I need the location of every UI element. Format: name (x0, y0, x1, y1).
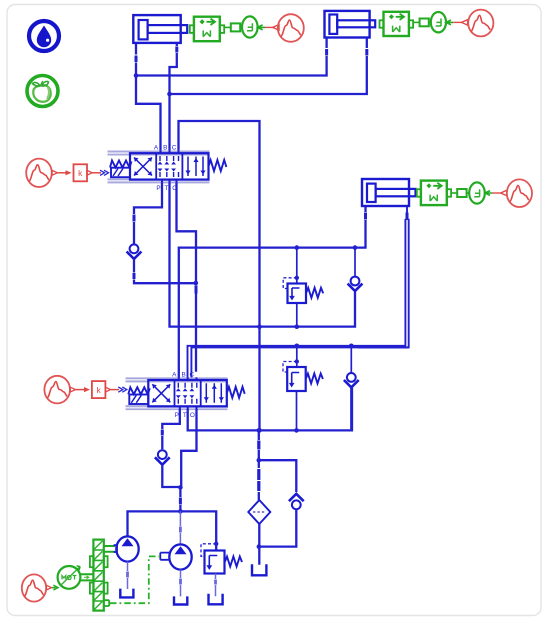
signal source S2 (44, 376, 75, 404)
port stub cyl1 left (135, 56, 138, 63)
filter FL1 (248, 500, 270, 524)
shaft dash-dot link to pump 2 (110, 556, 160, 603)
link L2 (413, 19, 429, 27)
port stubs bottom (162, 180, 177, 182)
signal source S4 (453, 10, 493, 37)
tank T3 (RV3) (209, 594, 223, 605)
gravity (apple) icon (27, 76, 58, 107)
svg-text:T: T (183, 412, 187, 419)
node B2/CV4 (349, 344, 354, 349)
cell 2 closed centre marks (160, 156, 179, 177)
node cyl1-left / line to cyl2 (134, 73, 139, 78)
node cyl1-right / line to cyl2 (167, 92, 172, 97)
node return/filter (257, 428, 262, 433)
mass M3 (417, 181, 451, 206)
svg-text:T: T (165, 185, 169, 192)
wire CV1 to node (196,283) (134, 259, 196, 283)
pump1 shaft tab (114, 545, 117, 552)
port stubs top (161, 151, 179, 153)
wire cyl1 right port down (170, 44, 177, 151)
fluid properties icon (29, 21, 59, 51)
wire pump1 to tank (127, 562, 129, 589)
cell 1 crossed arrows (134, 158, 152, 176)
node C-line / T-return (257, 324, 262, 329)
relief valve RV1 (283, 248, 323, 327)
wire valve1 P to check valve CV1 (134, 182, 162, 243)
wire pump2 riser (179, 511, 181, 544)
tank T1 (pump1) (120, 589, 133, 598)
check valve CV5 (points up) (259, 494, 304, 547)
svg-text:k: k (78, 168, 83, 178)
signal source S1 (26, 159, 57, 187)
relief valve RV2 (283, 346, 323, 431)
wire filter to tank (258, 524, 260, 565)
node return/C-line already drawn; node return/RV2 (294, 428, 299, 433)
force source F1 (242, 16, 265, 37)
svg-text:O: O (190, 412, 195, 419)
wire valve1 T down and across (return header) (170, 182, 356, 326)
node P/O junction (194, 281, 199, 286)
wire valve1 O down-right-down to valve2 C (177, 182, 197, 372)
wire supply riser (179, 487, 181, 511)
left return spring (110, 161, 132, 168)
svg-text:C: C (189, 371, 194, 378)
svg-text:B: B (181, 371, 185, 378)
proportional solenoid box (111, 168, 130, 178)
valve body (130, 153, 209, 179)
cell 3 straight arrows (188, 157, 203, 177)
signal source S6 (22, 574, 52, 601)
relief valve RV3 (201, 544, 242, 596)
node B2/RV2 (295, 344, 300, 349)
wire valve2 T to return header (188, 388, 352, 431)
check valve CV2 (348, 248, 363, 291)
wire y94 to cylinder 2 right port (170, 38, 367, 94)
gain k2 (76, 381, 127, 398)
node supply split (178, 485, 183, 490)
pump P1 (116, 536, 138, 561)
svg-text:B: B (163, 145, 167, 152)
wire valve2 P to check valve CV3 (162, 409, 180, 449)
node T-header/RV1 outlet (295, 324, 300, 329)
wire work line A2: valve2 A up, across to cylinder C3 left (179, 206, 366, 379)
check valve CV4 (344, 346, 359, 431)
node A2/CV2 (353, 245, 358, 250)
link L1 (224, 23, 242, 31)
node A2/RV1 (295, 245, 300, 250)
wire valve1 port C up-right-down (to return) (179, 121, 260, 430)
force source F2 (429, 12, 453, 32)
signal source S5 (492, 179, 532, 207)
selection band top (108, 151, 210, 156)
svg-text:C: C (172, 145, 177, 152)
selection band bottom (108, 179, 210, 184)
pump2 shaft tab (160, 553, 169, 560)
wire filter inlet (258, 460, 260, 500)
mass M2 (380, 12, 414, 36)
node filter outlet / CV5 (257, 544, 262, 549)
pump P2 (169, 544, 191, 569)
cylinder C1 (hydraulic jack) (133, 15, 187, 43)
force source F3 (469, 182, 492, 203)
wire supply manifold (128, 511, 217, 550)
node RV3 pilot tap (214, 542, 218, 546)
wire valve2 O down to supply node (181, 409, 196, 487)
mass M1 (190, 17, 224, 42)
svg-text:A: A (172, 371, 177, 378)
node C-line / tank return (257, 428, 262, 433)
wire CV5 branch (259, 460, 297, 492)
svg-text:k: k (96, 385, 101, 395)
signal source S3 (265, 14, 304, 42)
wire CV3 to supply node (162, 465, 180, 487)
cylinder C3 (362, 179, 416, 206)
tank T4 (filter) (252, 564, 266, 575)
prime mover MOT (52, 566, 93, 590)
node supply manifold (178, 509, 183, 514)
wire y75 to cylinder 2 left port (136, 38, 327, 76)
node filter/CV5 split (257, 458, 262, 463)
wire pump2 to tank (180, 570, 182, 597)
cylinder C2 (325, 11, 376, 38)
svg-text:P: P (156, 185, 160, 192)
wire filter drop (258, 430, 260, 460)
gain k1 (58, 164, 109, 181)
rotary shaft block (90, 540, 115, 611)
check valve CV3 (155, 450, 170, 464)
tank T2 (pump2) (174, 596, 187, 604)
link L3 (451, 189, 469, 197)
right spring (209, 160, 227, 171)
wire work line B2: valve2 B up, across to cylinder C3 right (double) (188, 219, 409, 379)
svg-text:A: A (154, 145, 159, 152)
svg-text:P: P (175, 412, 179, 419)
wire cyl1 left port down (136, 44, 161, 151)
check valve CV1 (127, 244, 142, 258)
